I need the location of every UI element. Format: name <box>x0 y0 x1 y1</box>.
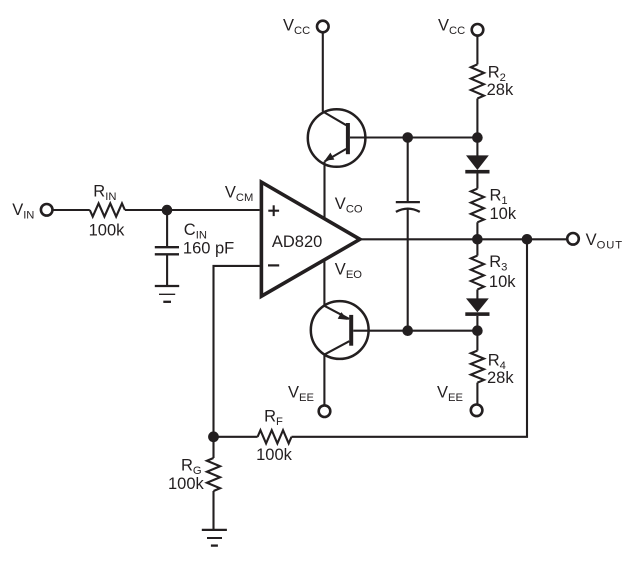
svg-text:VEE: VEE <box>437 384 463 405</box>
svg-text:28k: 28k <box>487 81 514 99</box>
svg-text:VCC: VCC <box>283 17 310 38</box>
svg-text:28k: 28k <box>487 369 514 387</box>
svg-text:R3: R3 <box>489 253 507 274</box>
svg-text:160 pF: 160 pF <box>183 240 234 258</box>
svg-text:RF: RF <box>264 408 283 429</box>
svg-text:VCO: VCO <box>335 195 363 216</box>
svg-text:100k: 100k <box>89 222 126 240</box>
svg-text:VCC: VCC <box>438 17 465 37</box>
svg-text:100k: 100k <box>256 446 293 464</box>
svg-text:VEO: VEO <box>335 260 362 281</box>
svg-text:VOUT: VOUT <box>586 231 623 252</box>
svg-text:VCM: VCM <box>225 184 253 205</box>
svg-text:AD820: AD820 <box>272 233 322 251</box>
svg-text:CIN: CIN <box>184 221 207 242</box>
svg-text:VIN: VIN <box>12 201 34 222</box>
svg-text:RIN: RIN <box>93 183 116 204</box>
svg-text:10k: 10k <box>490 205 517 223</box>
svg-text:R1: R1 <box>490 186 508 207</box>
svg-text:10k: 10k <box>489 273 516 291</box>
svg-text:100k: 100k <box>168 475 205 493</box>
svg-text:VEE: VEE <box>288 384 314 405</box>
